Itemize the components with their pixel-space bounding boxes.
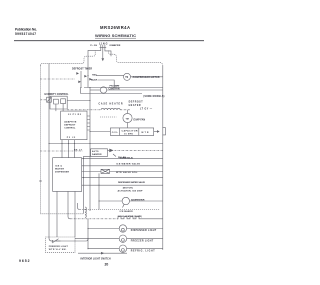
adc bottom stubs bbox=[62, 140, 75, 158]
svg-text:DISPENSER: DISPENSER bbox=[55, 171, 69, 173]
cap arrow bbox=[157, 130, 160, 133]
damper contact bbox=[109, 149, 113, 153]
freezer light rung bbox=[75, 238, 119, 240]
svg-text:WTR VALVE SOL.: WTR VALVE SOL. bbox=[116, 171, 138, 174]
timer contact 1 bbox=[76, 72, 79, 75]
PTC start label bbox=[110, 84, 121, 87]
junction dots bbox=[48, 75, 114, 249]
ice water valve label bbox=[116, 163, 141, 166]
humidity switch 2 bbox=[61, 99, 66, 104]
damper wires bbox=[108, 149, 110, 151]
water valve drop bbox=[98, 173, 100, 209]
refrig light lamp bbox=[119, 245, 126, 252]
door switch symbol bbox=[52, 239, 61, 243]
evap fan label bbox=[134, 119, 146, 122]
wire L1 bbox=[88, 48, 101, 70]
evaporator fan circle bbox=[123, 113, 132, 122]
svg-text:MRS26WR4A: MRS26WR4A bbox=[100, 25, 130, 30]
svg-text:ICE &: ICE & bbox=[55, 165, 62, 167]
interior light switch label bbox=[78, 252, 127, 254]
wire to compressor bbox=[96, 75, 124, 77]
dispenser bottom stubs bbox=[57, 191, 75, 237]
adc pin labels bbox=[68, 114, 82, 116]
cabinet dashed outline top right steps bbox=[109, 51, 163, 66]
dash-dot defrost line bbox=[40, 78, 75, 80]
svg-text:P3 J3: P3 J3 bbox=[67, 137, 76, 139]
svg-text:Publication No.: Publication No. bbox=[15, 28, 37, 32]
svg-text:HEATER: HEATER bbox=[129, 104, 141, 107]
wire color red label bbox=[92, 75, 97, 77]
auger wires bbox=[99, 200, 163, 202]
wire cap right bbox=[154, 131, 157, 133]
timer contact 4 bbox=[78, 81, 81, 84]
svg-text:WIRING SCHEMATIC: WIRING SCHEMATIC bbox=[95, 33, 136, 38]
condenser fan circle bbox=[100, 87, 106, 93]
dispenser rung 2 bbox=[82, 165, 163, 167]
water valve solenoid box bbox=[101, 169, 110, 173]
power cord labels L1 N G bbox=[99, 42, 108, 45]
wire N bbox=[105, 48, 111, 57]
svg-text:L1 N G: L1 N G bbox=[99, 42, 108, 45]
damper wire label bbox=[120, 158, 133, 160]
svg-text:MTR: MTR bbox=[142, 132, 149, 134]
cabinet dashed outline top left steps bbox=[40, 51, 95, 66]
left bus arrow bbox=[52, 240, 54, 242]
svg-text:CONTROL: CONTROL bbox=[64, 127, 76, 129]
wire cond fan left bbox=[90, 89, 100, 91]
dash-dot lower line bbox=[40, 150, 83, 152]
wire color label YL GN bbox=[90, 45, 98, 47]
dispenser text bbox=[55, 165, 69, 173]
svg-text:DEFROST TIMER: DEFROST TIMER bbox=[72, 69, 92, 71]
defrost timer heading bbox=[72, 69, 92, 71]
svg-text:(MOTOR): (MOTOR) bbox=[123, 188, 133, 190]
timer contact 3 bbox=[89, 78, 92, 81]
wire compressor to bus bbox=[131, 76, 163, 78]
svg-text:(SOME MODELS): (SOME MODELS) bbox=[143, 96, 164, 98]
title underline bbox=[95, 37, 136, 39]
defrost heater label bbox=[129, 102, 144, 107]
timer vertical a bbox=[80, 71, 82, 88]
adc text bbox=[64, 120, 77, 129]
wire color black label bbox=[91, 79, 98, 82]
svg-text:OVL: OVL bbox=[112, 132, 119, 134]
svg-text:BLACK: BLACK bbox=[91, 79, 98, 82]
svg-text:FREEZER LIGHT: FREEZER LIGHT bbox=[49, 246, 69, 248]
svg-text:DEFROST: DEFROST bbox=[64, 124, 76, 126]
svg-text:ICE WATER VALVE: ICE WATER VALVE bbox=[116, 163, 141, 166]
humidity control label bbox=[45, 94, 70, 96]
timer vertical b bbox=[87, 70, 89, 88]
svg-text:(SOME MDLS): (SOME MDLS) bbox=[120, 158, 133, 160]
svg-text:CONNECTOR: CONNECTOR bbox=[109, 45, 121, 47]
svg-text:5995374047: 5995374047 bbox=[15, 32, 36, 36]
svg-text:FREEZER LIGHT: FREEZER LIGHT bbox=[131, 240, 154, 242]
dispenser water valve label bbox=[118, 181, 146, 184]
timer contact 2 bbox=[84, 75, 87, 78]
svg-text:ADAPTIVE: ADAPTIVE bbox=[64, 120, 77, 123]
humidity control box bbox=[50, 96, 67, 109]
cabinet dashed outline bottom bbox=[40, 213, 83, 215]
auger circle stub bbox=[123, 205, 125, 208]
svg-text:LT GY —: LT GY — bbox=[140, 109, 153, 111]
dispenser light lamp bbox=[119, 225, 126, 232]
svg-text:J2 P1 R2: J2 P1 R2 bbox=[68, 114, 82, 116]
water valve sol label bbox=[116, 171, 138, 174]
wire relay bbox=[98, 80, 114, 88]
adc right stubs bbox=[87, 116, 90, 130]
svg-text:REFRIG. LIGHT: REFRIG. LIGHT bbox=[131, 250, 156, 252]
svg-text:WATER: WATER bbox=[55, 167, 64, 170]
door switch labels bbox=[49, 246, 69, 251]
condenser fan label bbox=[109, 87, 120, 90]
humidity to control stubs bbox=[56, 109, 63, 111]
rung some models bbox=[81, 88, 143, 94]
humidity wires bbox=[56, 101, 90, 110]
adc bottom pins bbox=[67, 137, 76, 139]
mold heater element bumps bbox=[117, 217, 140, 219]
dash-dot mid line right bbox=[120, 109, 130, 111]
svg-text:DISPENSER WATER VALVE: DISPENSER WATER VALVE bbox=[118, 181, 146, 184]
svg-text:9652: 9652 bbox=[19, 259, 30, 263]
header rule bbox=[14, 40, 204, 42]
svg-text:ICE MAKER: ICE MAKER bbox=[120, 210, 133, 213]
svg-text:20: 20 bbox=[105, 263, 109, 267]
dash-dot mid line left bbox=[67, 109, 101, 111]
bus bracket bbox=[162, 128, 165, 135]
wire cap left bbox=[90, 131, 110, 133]
dispenser control box bbox=[53, 158, 82, 192]
compressor motor circle bbox=[124, 73, 131, 80]
adaptive defrost control box bbox=[61, 111, 87, 140]
dispenser rung 1 bbox=[82, 158, 163, 160]
cabinet dashed outline left vertical bbox=[39, 66, 41, 214]
dispenser rung 5 bbox=[82, 184, 163, 186]
plug terminals bbox=[100, 45, 107, 48]
refrig light rung bbox=[88, 248, 119, 250]
interior light switch label bbox=[81, 258, 111, 260]
auto damper box bbox=[91, 149, 108, 157]
actuator labels bbox=[118, 188, 144, 193]
svg-text:TM: TM bbox=[126, 118, 129, 120]
svg-text:PTC START: PTC START bbox=[110, 84, 121, 87]
bk27 label bbox=[74, 149, 83, 151]
cabinet tick bbox=[39, 180, 42, 182]
damper feed bbox=[84, 156, 91, 213]
freezer light label bbox=[131, 240, 154, 242]
dispenser light rung bbox=[88, 228, 119, 230]
freezer light lamp bbox=[119, 235, 126, 242]
freezer door switch dashed box bbox=[46, 237, 76, 253]
header model number bbox=[100, 25, 130, 30]
wire circle top bbox=[127, 110, 129, 114]
run capacitor box bbox=[110, 128, 153, 135]
connector label bbox=[109, 45, 121, 47]
footer page 20 bbox=[105, 263, 109, 267]
switch arrow bbox=[101, 252, 105, 255]
svg-text:DEFROST: DEFROST bbox=[129, 102, 144, 104]
ground arrow bbox=[102, 58, 105, 61]
svg-text:WTR VLV SW.: WTR VLV SW. bbox=[49, 249, 67, 251]
svg-text:TS: TS bbox=[125, 77, 128, 79]
wire color LT GY bbox=[140, 109, 153, 111]
svg-text:CAPACITOR: CAPACITOR bbox=[122, 129, 138, 132]
svg-text:ACTUATOR, ICE DISP: ACTUATOR, ICE DISP bbox=[118, 189, 144, 192]
mold heater to bus bbox=[140, 218, 163, 220]
header publication number bbox=[15, 28, 37, 37]
ice maker dashed feed bbox=[80, 209, 160, 211]
case heater label bbox=[99, 103, 123, 106]
svg-text:EVAP FAN: EVAP FAN bbox=[134, 119, 146, 122]
wire color label wh bbox=[118, 157, 127, 159]
defrost thermostat on bus bbox=[47, 97, 52, 102]
svg-text:YL GN: YL GN bbox=[90, 45, 98, 47]
rung main bbox=[84, 87, 163, 89]
svg-text:BK 27: BK 27 bbox=[74, 149, 83, 151]
svg-text:INTERIOR LIGHT SWITCH: INTERIOR LIGHT SWITCH bbox=[81, 258, 111, 260]
ice maker label bbox=[118, 210, 142, 218]
wire circle bottom bbox=[127, 123, 129, 128]
svg-text:DAMPER: DAMPER bbox=[92, 153, 102, 156]
long rung mid bbox=[49, 143, 163, 145]
header title WIRING SCHEMATIC bbox=[95, 33, 136, 38]
dash-dot stub bbox=[40, 99, 46, 101]
defrost heater scallops bbox=[101, 108, 120, 110]
center bus bbox=[89, 88, 91, 212]
svg-text:COMPRESSOR MOTOR: COMPRESSOR MOTOR bbox=[133, 77, 160, 79]
left bus L1 bbox=[49, 64, 52, 241]
compressor motor label bbox=[133, 77, 160, 79]
dispenser light label bbox=[131, 230, 157, 232]
svg-text:CASE HEATER: CASE HEATER bbox=[99, 103, 123, 106]
auger motor label bbox=[131, 198, 145, 201]
dashed mid stub bbox=[100, 116, 116, 118]
defrost heater coil bbox=[85, 207, 86, 217]
wire cond fan right bbox=[107, 89, 163, 91]
some models label bbox=[143, 96, 164, 98]
capacitor labels bbox=[112, 129, 149, 135]
dispenser rung 3 bbox=[82, 171, 163, 173]
svg-text:DISPENSER LIGHT: DISPENSER LIGHT bbox=[131, 230, 157, 232]
auger motor circle bbox=[122, 197, 129, 204]
dispenser rung 4 bbox=[82, 177, 163, 179]
right bus N bbox=[162, 66, 164, 250]
svg-text:AUTO: AUTO bbox=[92, 150, 99, 153]
ground wire bbox=[102, 48, 104, 59]
lamp feed vertical bbox=[87, 219, 89, 249]
door switch rung bbox=[54, 239, 88, 241]
svg-text:15 MFD: 15 MFD bbox=[124, 133, 134, 135]
mold heater rung dashdot bbox=[70, 218, 118, 220]
refrig light label bbox=[131, 250, 156, 252]
footer code 9652 bbox=[19, 259, 30, 263]
humidity switch 1 bbox=[54, 99, 59, 104]
ice tray feed corner bbox=[78, 203, 81, 210]
